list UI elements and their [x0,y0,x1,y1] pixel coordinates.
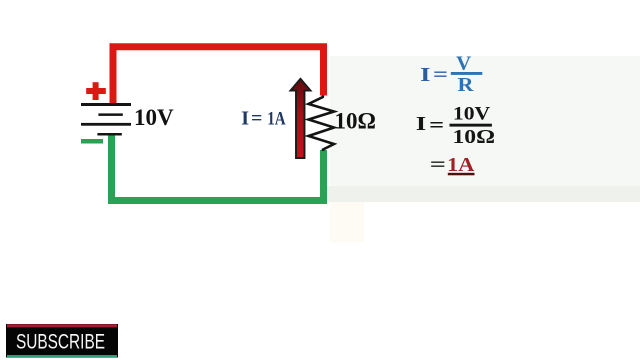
resistor R1 zigzag [309,96,335,152]
battery minus terminal mark [81,139,103,144]
svg-text:SUBSCRIBE: SUBSCRIBE [16,331,105,354]
svg-text:I: I [241,108,249,130]
svg-text:R: R [458,74,475,96]
svg-text:I: I [416,113,427,135]
battery B1 plate 1 (long, +) [81,103,131,106]
subscribe button [6,324,118,358]
formula 1: I = V/R [420,54,482,97]
current label I = 1A [241,108,286,130]
svg-text:=: = [429,113,444,137]
faint off-white panel behind formulas [330,56,640,186]
wire red top loop [113,47,324,104]
formula 2: I = 10V/10Ω [416,103,495,148]
wire green bottom loop [112,133,324,201]
battery B1 plate 3 (long) [81,123,131,126]
current arrow (up) [291,79,311,158]
svg-text:=: = [430,154,446,176]
svg-text:1A: 1A [447,154,474,176]
svg-text:10V: 10V [134,105,174,130]
svg-text:=: = [251,108,262,130]
svg-text:=: = [433,64,448,86]
svg-text:10Ω: 10Ω [335,108,376,133]
faint gray band right of circuit [326,186,640,202]
svg-text:V: V [456,54,471,75]
battery B1 plate 2 (short) [98,113,122,116]
svg-text:10Ω: 10Ω [453,126,496,148]
battery B1 plate 4 (short, -) [97,133,121,136]
faint warm patch below band [330,202,364,242]
svg-text:10V: 10V [453,103,491,124]
svg-text:I: I [420,64,431,86]
formula 3: = 1A [430,154,475,176]
battery plus terminal mark [86,82,106,100]
svg-text:1A: 1A [267,109,286,130]
